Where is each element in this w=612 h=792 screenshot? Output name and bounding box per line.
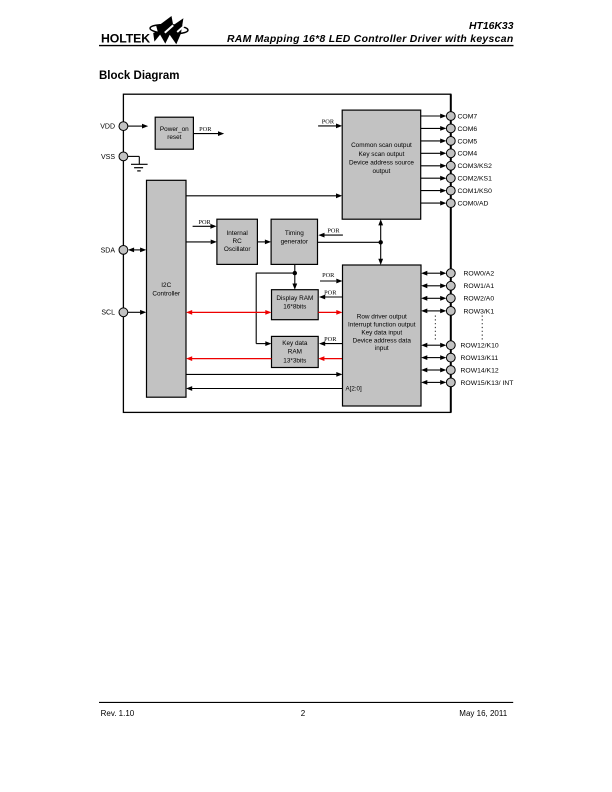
pin ROW15/K13/ INT — [446, 378, 513, 387]
wire common scan output to COM2/KS1 — [421, 176, 447, 181]
svg-text:POR: POR — [324, 336, 337, 343]
wire timing generator to scan blocks with junction — [318, 219, 384, 265]
svg-text:VDD: VDD — [100, 124, 115, 131]
svg-text:POR: POR — [322, 118, 335, 125]
wire row driver to ROW15/K13/ INT (bidirectional) — [421, 380, 446, 385]
internal RC oscillator block — [217, 219, 258, 264]
svg-text:May 16, 2011: May 16, 2011 — [459, 709, 507, 718]
pin COM7 — [446, 112, 477, 121]
pin ROW2/A0 — [446, 294, 494, 303]
pin VSS — [101, 152, 128, 161]
POR arrow into display RAM — [319, 295, 343, 300]
display RAM block — [272, 290, 319, 320]
pin COM5 — [446, 137, 477, 146]
wire common scan output to COM3/KS2 — [421, 163, 447, 168]
block diagram frame — [123, 94, 450, 412]
svg-text:Row driver output: Row driver output — [357, 314, 407, 321]
POR arrow into RC oscillator — [193, 224, 217, 229]
svg-text:Key data input: Key data input — [361, 329, 402, 336]
pin ROW12/K10 — [446, 341, 498, 350]
svg-text:Block Diagram: Block Diagram — [99, 70, 180, 82]
svg-text:RAM: RAM — [288, 349, 302, 356]
red data bus I2C to display RAM — [186, 310, 272, 315]
wire common scan output to COM4 — [421, 151, 447, 156]
svg-text:POR: POR — [327, 228, 340, 235]
svg-text:reset: reset — [167, 134, 181, 141]
common scan output block — [342, 110, 421, 219]
svg-text:POR: POR — [322, 272, 335, 279]
wire common scan output to COM5 — [421, 139, 447, 144]
wire common scan output to COM0/AD — [421, 201, 447, 206]
svg-text:2: 2 — [301, 709, 306, 718]
POR output arrow of reset block — [193, 131, 224, 136]
power-on reset block — [155, 117, 193, 149]
wire common scan output to COM6 — [421, 126, 447, 131]
svg-text:ROW1/A1: ROW1/A1 — [464, 283, 495, 290]
svg-text:Oscillator: Oscillator — [224, 246, 252, 253]
svg-text:16*8bits: 16*8bits — [283, 303, 306, 310]
svg-text:VSS: VSS — [101, 154, 115, 161]
svg-text:COM1/KS0: COM1/KS0 — [458, 188, 493, 195]
wire row driver to ROW2/A0 (bidirectional) — [421, 296, 446, 301]
svg-text:POR: POR — [324, 289, 337, 296]
svg-text:Power_on: Power_on — [160, 126, 189, 133]
svg-text:ROW14/K12: ROW14/K12 — [461, 367, 499, 374]
wire A[2:0] row driver to I2C — [186, 386, 343, 391]
svg-text:HT16K33: HT16K33 — [469, 21, 514, 32]
svg-text:Timing: Timing — [285, 230, 304, 237]
svg-text:COM3/KS2: COM3/KS2 — [458, 163, 493, 170]
pin COM0/AD — [446, 199, 488, 208]
svg-text:HOLTEK: HOLTEK — [101, 31, 150, 45]
pin ROW14/K12 — [446, 366, 498, 375]
wire timing generator down to display RAM with junction — [292, 264, 297, 289]
svg-text:COM4: COM4 — [458, 151, 478, 158]
pin COM4 — [446, 149, 477, 158]
wire I2C to common scan output block — [186, 193, 342, 198]
pin SCL — [101, 308, 127, 317]
pin COM2/KS1 — [446, 174, 492, 183]
wire row driver to ROW0/A2 (bidirectional) — [421, 271, 446, 276]
wire row driver to ROW12/K10 (bidirectional) — [421, 343, 446, 348]
svg-text:POR: POR — [198, 219, 211, 226]
pin ROW3/K1 — [446, 307, 494, 316]
wire I2C to RC oscillator — [186, 240, 217, 245]
svg-text:ROW12/K10: ROW12/K10 — [461, 343, 499, 350]
wire SDA to I2C controller (bidirectional) — [128, 248, 146, 253]
red data bus key data RAM to I2C — [186, 356, 272, 361]
POR arrow into key data RAM — [319, 341, 343, 346]
svg-text:input: input — [375, 345, 389, 352]
svg-text:13*3bits: 13*3bits — [283, 357, 306, 364]
POR arrow into timing generator — [318, 233, 343, 238]
svg-text:I2C: I2C — [161, 282, 171, 289]
svg-text:ROW3/K1: ROW3/K1 — [464, 308, 495, 315]
svg-text:Key data: Key data — [282, 340, 308, 347]
ellipsis dots between row labels — [481, 316, 483, 341]
wire common scan output to COM7 — [421, 114, 447, 119]
red data bus display RAM to row driver block — [318, 310, 342, 315]
wire VDD to Power_on reset — [128, 124, 149, 129]
wire row driver to ROW1/A1 (bidirectional) — [421, 283, 446, 288]
svg-text:Key scan output: Key scan output — [359, 151, 405, 158]
POR arrow into row driver block — [320, 279, 343, 284]
ground symbol — [128, 156, 148, 171]
svg-text:RC: RC — [233, 238, 243, 245]
wire row driver to ROW14/K12 (bidirectional) — [421, 368, 446, 373]
svg-text:Controller: Controller — [152, 291, 181, 298]
svg-text:COM6: COM6 — [458, 126, 478, 133]
svg-text:SDA: SDA — [101, 247, 116, 254]
Holtek logo — [101, 16, 188, 45]
wire common scan output to COM1/KS0 — [421, 188, 447, 193]
red data bus row driver to key data RAM — [318, 356, 342, 361]
wire row driver to ROW3/K1 (bidirectional) — [421, 309, 446, 314]
pin VDD — [100, 122, 128, 131]
POR arrow into common scan output block — [318, 124, 342, 129]
ellipsis dots between row arrows — [434, 316, 436, 341]
svg-text:ROW15/K13/ INT: ROW15/K13/ INT — [461, 380, 514, 387]
pin COM6 — [446, 124, 477, 133]
svg-text:output: output — [373, 168, 391, 175]
pin SDA — [101, 246, 128, 255]
svg-text:SCL: SCL — [101, 310, 115, 317]
wire row driver to ROW13/K11 (bidirectional) — [421, 355, 446, 360]
timing generator block — [271, 219, 317, 264]
branch wire from junction to key data RAM — [256, 273, 295, 346]
svg-text:Interrupt function output: Interrupt function output — [348, 322, 416, 329]
svg-text:RAM Mapping 16*8 LED Controlle: RAM Mapping 16*8 LED Controller Driver w… — [227, 34, 514, 45]
footer rule — [99, 701, 513, 703]
svg-text:Internal: Internal — [226, 230, 247, 237]
svg-text:Device address data: Device address data — [353, 337, 412, 344]
pin COM1/KS0 — [446, 186, 492, 195]
pin ROW0/A2 — [446, 269, 494, 278]
pin COM3/KS2 — [446, 161, 492, 170]
wire RC oscillator to timing generator — [257, 240, 271, 245]
svg-text:COM5: COM5 — [458, 138, 478, 145]
svg-text:A[2:0]: A[2:0] — [346, 386, 362, 393]
wire SCL to I2C controller — [128, 310, 147, 315]
svg-text:ROW2/A0: ROW2/A0 — [464, 296, 495, 303]
row driver output block — [343, 265, 422, 406]
svg-text:Device address source: Device address source — [349, 159, 414, 166]
I2C controller block — [147, 180, 187, 397]
svg-text:COM7: COM7 — [458, 113, 478, 120]
svg-text:ROW0/A2: ROW0/A2 — [464, 271, 495, 278]
pin ROW13/K11 — [446, 353, 498, 362]
key data RAM block — [272, 336, 319, 367]
svg-text:POR: POR — [199, 126, 212, 133]
svg-text:Common scan output: Common scan output — [351, 142, 412, 149]
svg-text:generator: generator — [281, 239, 309, 246]
pin ROW1/A1 — [446, 281, 494, 290]
wire I2C to row driver block — [186, 372, 343, 377]
svg-text:COM0/AD: COM0/AD — [458, 201, 489, 208]
svg-text:ROW13/K11: ROW13/K11 — [461, 355, 499, 362]
svg-text:COM2/KS1: COM2/KS1 — [458, 176, 493, 183]
header rule — [99, 45, 514, 47]
svg-text:Rev. 1.10: Rev. 1.10 — [101, 709, 135, 718]
svg-text:Display RAM: Display RAM — [276, 295, 313, 302]
